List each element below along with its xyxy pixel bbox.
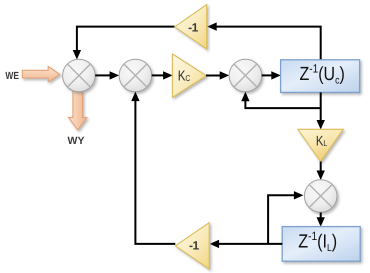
wire S1 to S2	[95, 71, 119, 79]
wire bottom -1 gain to S2	[131, 92, 175, 244]
wire from Z-1(Uc) output up to top -1 gain	[207, 22, 321, 60]
multiplier node S1	[63, 59, 96, 92]
svg-text:-1: -1	[189, 238, 200, 252]
multiplier node S4	[304, 180, 337, 213]
wire branch IL feedback to S4	[268, 191, 303, 244]
wire feedback Uc to S3	[241, 92, 321, 108]
svg-text:WE: WE	[5, 71, 19, 82]
gain Kc	[172, 54, 206, 97]
block label Z-1(Uc)	[300, 62, 345, 87]
value label Kc	[178, 69, 191, 85]
svg-text:-1: -1	[188, 21, 199, 35]
wire S3 to block Z-1(Uc)	[262, 71, 281, 79]
wire Z-1(Uc) output down to gain KL	[317, 92, 325, 129]
output arrow WY	[69, 91, 87, 130]
value label KL	[316, 132, 327, 148]
wire S4 to block Z-1(IL)	[317, 213, 325, 227]
gain KL	[298, 129, 343, 161]
delay block Z-1(Uc)	[281, 60, 360, 93]
svg-text:Z-1(IL): Z-1(IL)	[298, 229, 337, 254]
delay block Z-1(IL)	[282, 227, 360, 262]
wire Kc to S3	[206, 71, 229, 79]
wire KL to S4	[317, 162, 325, 181]
block label Z-1(IL)	[298, 229, 337, 254]
wire from top -1 gain to summing node S1	[73, 27, 175, 60]
multiplier node S3	[229, 59, 262, 92]
gain -1 (bottom)	[175, 223, 209, 269]
wire S2 to gain Kc	[152, 71, 173, 79]
svg-text:WY: WY	[68, 135, 85, 147]
gain -1 (top)	[175, 5, 207, 49]
wire Z-1(IL) output to bottom -1 gain	[210, 240, 283, 248]
multiplier node S2	[119, 59, 152, 92]
input arrow WE	[22, 66, 60, 82]
